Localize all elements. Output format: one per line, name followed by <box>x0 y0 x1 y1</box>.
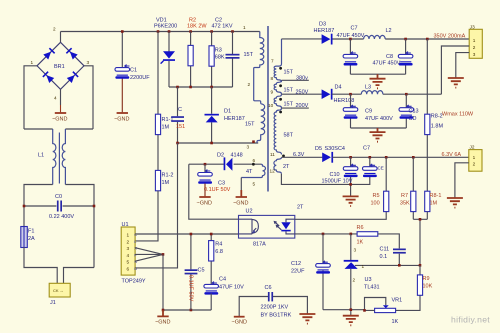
wire drain vertical to U1 pin D <box>135 143 177 268</box>
svg-text:R2: R2 <box>189 18 196 24</box>
wire bridge top to rail <box>60 32 62 43</box>
svg-text:TL431: TL431 <box>364 285 380 291</box>
winding sec B 15T <box>271 80 294 94</box>
IC U1 TOP249Y <box>121 222 146 285</box>
junction anode <box>350 308 353 311</box>
svg-text:250V: 250V <box>296 90 309 96</box>
diode D5 S30SC4 <box>315 146 345 163</box>
wire pin7 to D3 <box>282 38 322 40</box>
potentiometer VR1 1K <box>365 298 403 326</box>
svg-text:R1-1: R1-1 <box>162 117 174 123</box>
earth ground C10 <box>343 196 359 206</box>
svg-text:0.1UF 50V: 0.1UF 50V <box>204 187 231 193</box>
wire pin9 to D4 <box>282 93 322 95</box>
junction gnd rail C5 <box>190 309 193 312</box>
svg-text:BY BG1TRK: BY BG1TRK <box>261 313 292 319</box>
earth ground TL431 <box>343 316 359 326</box>
winding sec E 2T <box>270 155 291 174</box>
junction clamp snubber <box>176 86 179 89</box>
svg-text:2: 2 <box>248 82 251 87</box>
wire C1 stem <box>121 32 123 68</box>
svg-text:3: 3 <box>127 246 130 251</box>
svg-text:C1: C1 <box>130 68 137 74</box>
svg-text:1M: 1M <box>162 125 170 131</box>
svg-text:350V 200mA: 350V 200mA <box>434 34 466 40</box>
svg-text:D1: D1 <box>224 109 231 115</box>
svg-text:D5: D5 <box>315 146 322 152</box>
svg-text:C: C <box>134 232 137 237</box>
svg-text:68K: 68K <box>215 55 225 61</box>
svg-text:3: 3 <box>354 248 357 253</box>
capacitor C4 47UF 10V <box>204 277 244 311</box>
wire clamp node horizontal <box>169 86 233 88</box>
svg-text:R3: R3 <box>215 48 222 54</box>
junction C9 <box>349 93 352 96</box>
svg-text:HER187: HER187 <box>224 116 245 122</box>
wire AC right vertical from bridge pin3 down to L1 <box>84 66 93 129</box>
svg-text:HER108: HER108 <box>334 98 355 104</box>
wire main HV rail <box>61 31 260 33</box>
svg-text:200V: 200V <box>296 103 309 109</box>
svg-text:15T: 15T <box>244 52 254 58</box>
svg-text:CD: CD <box>409 116 417 122</box>
svg-text:Wmax 110W: Wmax 110W <box>442 112 474 118</box>
connector J3 <box>469 24 482 58</box>
svg-text:3: 3 <box>247 145 250 150</box>
svg-text:472 1KV: 472 1KV <box>212 24 233 30</box>
wire R7 R8-1 bottoms <box>413 219 427 265</box>
wire L1 right bottom down right column <box>65 185 94 268</box>
svg-text:1500UF 10V: 1500UF 10V <box>322 179 353 185</box>
svg-text:15T: 15T <box>284 102 294 108</box>
svg-text:1K: 1K <box>357 240 364 246</box>
junction ref C11 <box>398 264 401 267</box>
svg-text:J2: J2 <box>470 145 475 150</box>
resistor R5 100 <box>295 157 389 219</box>
junction R7R8 <box>419 218 422 221</box>
transformer T1 core <box>267 26 269 192</box>
svg-text:10: 10 <box>268 103 274 108</box>
svg-text:hifidiy.net: hifidiy.net <box>451 315 490 325</box>
svg-text:3: 3 <box>87 60 90 65</box>
svg-text:35K: 35K <box>400 201 410 207</box>
svg-text:C3: C3 <box>218 181 225 187</box>
svg-text:6.3V 6A: 6.3V 6A <box>442 152 462 158</box>
svg-text:58T: 58T <box>284 133 294 139</box>
fuse F1 <box>21 227 35 248</box>
svg-text:F1: F1 <box>28 229 34 235</box>
wire R1-2 to U1 pin L <box>135 191 158 241</box>
capacitor C6 Y-cap <box>239 285 307 319</box>
earth ground 350V filter <box>370 74 386 88</box>
junction R8-2 <box>426 38 429 41</box>
svg-text:C7: C7 <box>363 146 370 152</box>
svg-text:0.1UF 50V: 0.1UF 50V <box>188 275 194 302</box>
svg-text:R8-1: R8-1 <box>430 193 442 199</box>
svg-text:1M: 1M <box>162 180 170 186</box>
svg-text:47UF 10V: 47UF 10V <box>219 285 244 291</box>
svg-text:4148: 4148 <box>231 153 243 159</box>
inductor L2 <box>364 28 392 39</box>
junction rail R3 <box>210 30 213 33</box>
svg-text:U3: U3 <box>365 277 372 283</box>
winding primary lower 15T <box>245 104 265 143</box>
capacitor C12 22UF <box>291 234 330 310</box>
earth ground 250V filter <box>370 128 386 142</box>
svg-text:2: 2 <box>53 27 56 32</box>
junction C1 rail <box>121 30 124 33</box>
wire gnd rail U1 <box>163 309 211 311</box>
svg-text:1M: 1M <box>430 201 438 207</box>
wire source to gnd rail <box>162 254 164 310</box>
svg-text:P6KE200: P6KE200 <box>154 24 177 30</box>
svg-text:12: 12 <box>270 169 276 174</box>
junction rail VD1 <box>168 30 171 33</box>
junction fan <box>162 253 165 256</box>
wire right column to J1 <box>64 268 95 284</box>
wire 6.3V rail <box>332 156 469 158</box>
junction drain snubber <box>176 142 179 145</box>
svg-text:1: 1 <box>473 38 476 43</box>
svg-text:R5: R5 <box>373 193 380 199</box>
junction rail C2 <box>231 30 234 33</box>
capacitor C1 2200UF <box>115 65 150 81</box>
svg-text:2200P 1KV: 2200P 1KV <box>261 305 289 311</box>
earth ground J3 <box>448 78 464 88</box>
svg-text:C6: C6 <box>265 285 272 291</box>
svg-text:C9: C9 <box>365 109 372 115</box>
connector J1 <box>49 283 70 306</box>
svg-text:S: S <box>134 259 137 264</box>
junction ref R9 <box>419 264 422 267</box>
svg-text:R8-2: R8-2 <box>431 114 443 120</box>
diode D1 HER187 <box>205 87 245 143</box>
junction gnd rail <box>162 309 165 312</box>
svg-text:C4: C4 <box>219 277 226 283</box>
wire L1 left bottom to fuse column <box>24 185 53 227</box>
wire bias node <box>189 163 261 165</box>
svg-text:4T: 4T <box>246 169 253 175</box>
svg-text:1: 1 <box>127 233 130 238</box>
svg-text:~GND: ~GND <box>232 320 247 326</box>
junction C10 <box>349 156 352 159</box>
shunt regulator U3 TL431 <box>344 234 420 315</box>
svg-text:15T: 15T <box>245 122 255 128</box>
junction C0 right <box>93 205 96 208</box>
svg-text:0.22 400V: 0.22 400V <box>49 214 74 220</box>
svg-text:R6: R6 <box>357 225 364 231</box>
label 380v net <box>282 76 309 82</box>
wire pin5 to gnd <box>240 178 242 191</box>
svg-text:15T: 15T <box>284 70 294 76</box>
svg-text:L1: L1 <box>38 153 44 159</box>
diode D4 HER108 <box>322 85 355 105</box>
svg-text:2: 2 <box>127 239 130 244</box>
svg-text:~GND: ~GND <box>197 201 212 207</box>
capacitor C2 472 1KV <box>212 18 240 88</box>
svg-text:C11: C11 <box>380 247 390 253</box>
capacitor C11 0.1 <box>380 247 406 266</box>
svg-text:R9: R9 <box>423 276 430 282</box>
svg-text:L2: L2 <box>386 28 392 34</box>
resistor R1-1 1M <box>155 32 173 171</box>
junction C13 <box>405 93 408 96</box>
ground ~GND C1 <box>114 113 129 123</box>
svg-text:2T: 2T <box>283 164 290 170</box>
svg-text:2: 2 <box>473 45 476 50</box>
svg-text:10K: 10K <box>423 284 433 290</box>
wire 350V rail <box>333 38 470 40</box>
ground ~GND U1 <box>155 310 170 326</box>
svg-text:C8: C8 <box>386 54 393 60</box>
svg-text:VR1: VR1 <box>392 298 403 304</box>
svg-text:C12: C12 <box>291 261 301 267</box>
junction C3 <box>204 163 207 166</box>
capacitor C7 47UF 450V <box>337 26 365 75</box>
svg-text:1: 1 <box>31 60 34 65</box>
svg-text:2200UF: 2200UF <box>130 75 150 81</box>
inductor L3 <box>361 85 383 95</box>
svg-text:TOP249Y: TOP249Y <box>122 279 146 285</box>
resistor R9 10K <box>396 265 433 310</box>
wire bridge bottom to gnd <box>60 89 62 105</box>
svg-text:C2: C2 <box>215 18 222 24</box>
capacitor C8 47UF 450V <box>373 39 413 74</box>
svg-text:BR1: BR1 <box>54 64 65 70</box>
svg-text:1: 1 <box>243 25 246 30</box>
svg-text:CE: CE <box>378 166 384 171</box>
junction clamp R2 <box>189 86 192 89</box>
svg-text:6.8: 6.8 <box>215 249 223 255</box>
svg-text:6: 6 <box>127 266 130 271</box>
connector J2 <box>469 145 482 172</box>
svg-text:L3: L3 <box>365 85 371 91</box>
svg-text:C0: C0 <box>55 194 62 200</box>
svg-text:~GND: ~GND <box>155 320 170 326</box>
junction R5 <box>385 156 388 159</box>
label R8-2 <box>425 39 444 192</box>
svg-text:U2: U2 <box>246 209 253 215</box>
junction clamp R3 D1 <box>210 86 213 89</box>
resistor R2 18K 2W <box>187 18 207 88</box>
resistor R3 68K <box>209 32 225 88</box>
svg-text:S30SC4: S30SC4 <box>325 146 346 152</box>
svg-text:~GND: ~GND <box>233 201 248 207</box>
junction R7 <box>412 156 415 159</box>
resistor R8-1 1M <box>425 191 442 219</box>
svg-text:R7: R7 <box>401 193 408 199</box>
diode D3 HER187 <box>314 22 335 45</box>
svg-text:6.3V: 6.3V <box>293 152 305 158</box>
winding sec A 15T <box>271 39 294 82</box>
wire L1 right top <box>65 128 93 130</box>
wire U1 pins XFS fan <box>135 248 163 262</box>
svg-text:C: C <box>178 107 182 113</box>
earth ground C6 right <box>299 314 315 324</box>
winding 4T bias <box>241 164 265 177</box>
bridge rectifier BR1 <box>37 42 84 89</box>
resistor R1-2 1M <box>155 170 173 190</box>
ground ~GND pin5 <box>233 190 248 207</box>
svg-text:D2: D2 <box>217 153 224 159</box>
junction drain D1 <box>210 142 213 145</box>
svg-text:4: 4 <box>127 253 130 258</box>
junction VR1 left <box>363 309 366 312</box>
svg-text:3: 3 <box>473 52 476 57</box>
junction rail R1-1 <box>157 30 160 33</box>
junction C8 <box>404 38 407 41</box>
capacitor C3 <box>198 164 231 193</box>
svg-text:817A: 817A <box>253 242 266 248</box>
resistor R7 35K <box>400 157 416 219</box>
svg-text:22UF: 22UF <box>291 269 305 275</box>
polarity dot 4T <box>252 163 255 166</box>
optocoupler U2 817A <box>239 209 295 248</box>
svg-text:4: 4 <box>54 96 57 101</box>
svg-text:1: 1 <box>362 264 365 269</box>
svg-text:1K: 1K <box>392 319 399 325</box>
svg-text:1.8M: 1.8M <box>431 124 444 130</box>
svg-text:0.1: 0.1 <box>380 254 388 260</box>
resistor R6 1K <box>357 225 400 248</box>
capacitor C9 47UF 400V <box>343 94 393 128</box>
capacitor C0 <box>49 194 74 220</box>
junction C7 <box>349 38 352 41</box>
svg-text:VD1: VD1 <box>156 18 167 24</box>
wire U1 pin C to U2 <box>135 233 239 235</box>
wire C9 C13 bottoms <box>351 127 407 129</box>
wire J2 pin2 to gnd <box>455 163 469 198</box>
svg-text:D3: D3 <box>319 22 326 28</box>
junction R6 left TL431 <box>350 233 353 236</box>
svg-text:11: 11 <box>270 152 275 157</box>
svg-text:6: 6 <box>253 158 256 163</box>
winding sec D 58T <box>270 108 294 157</box>
resistor R4 6.8 <box>209 234 223 284</box>
wire J3 pin2 to 250V rail <box>441 46 469 94</box>
ground ~GND bridge <box>52 113 67 123</box>
wire pin12 return <box>281 174 369 185</box>
svg-text:380v: 380v <box>296 76 308 82</box>
wire fuse to J1 <box>24 247 57 283</box>
svg-text:2T: 2T <box>297 205 304 211</box>
svg-text:U1: U1 <box>122 222 129 228</box>
earth ground J2 <box>447 198 463 208</box>
wire drain node horizontal to xfmr pin3 <box>178 142 259 144</box>
svg-text:J1: J1 <box>50 300 56 306</box>
junction pin3 dot <box>252 140 255 143</box>
wire 250V rail <box>332 93 442 95</box>
svg-text:2A: 2A <box>28 236 35 242</box>
ground ~GND C6 left <box>232 317 247 326</box>
svg-text:8: 8 <box>271 76 274 81</box>
choke L1 <box>38 129 65 185</box>
svg-text:C13: C13 <box>409 109 419 115</box>
svg-text:47UF 450V: 47UF 450V <box>337 33 365 39</box>
capacitor C5 <box>185 234 205 310</box>
junction R4 top <box>210 233 213 236</box>
svg-text:2: 2 <box>353 278 356 283</box>
wire J3 pin3 to gnd <box>456 53 469 78</box>
junction C10 gnd line <box>349 183 352 186</box>
svg-text:100: 100 <box>371 201 380 207</box>
winding sec C 15T <box>268 94 294 108</box>
svg-text:C5: C5 <box>198 268 205 274</box>
svg-text:1: 1 <box>473 155 476 160</box>
svg-text:18K 2W: 18K 2W <box>187 24 207 30</box>
svg-text:7: 7 <box>271 59 274 64</box>
svg-text:C10: C10 <box>330 172 340 178</box>
svg-text:151: 151 <box>176 124 185 130</box>
svg-text:~GND: ~GND <box>52 117 67 123</box>
ground ~GND C3 <box>197 184 212 207</box>
wire L1 left top <box>24 128 53 130</box>
svg-text:47UF 400V: 47UF 400V <box>365 116 393 122</box>
svg-text:R4: R4 <box>215 242 222 248</box>
svg-text:5: 5 <box>253 182 256 187</box>
wire AC left vertical from bridge pin1 down to L1 <box>24 66 37 129</box>
junction C0 left <box>23 205 26 208</box>
winding primary upper 15T <box>243 25 264 104</box>
wire C7 C8 bottoms <box>350 73 405 75</box>
wire bias to U2 collector <box>189 164 239 219</box>
svg-text:~GND: ~GND <box>114 117 129 123</box>
capacitor C snubber 151 <box>171 87 185 143</box>
wire C0 row <box>24 205 94 207</box>
svg-text:2: 2 <box>473 162 476 167</box>
svg-text:D: D <box>134 266 137 271</box>
svg-text:CK ↔: CK ↔ <box>53 288 64 293</box>
svg-text:D4: D4 <box>335 85 342 91</box>
capacitor CE <box>363 157 384 177</box>
svg-text:J3: J3 <box>470 24 475 29</box>
capacitor C10 1500UF 10V <box>322 157 358 196</box>
junction C5 top <box>190 233 193 236</box>
svg-text:C7: C7 <box>351 26 358 32</box>
svg-text:47UF 450V: 47UF 450V <box>373 61 401 67</box>
svg-text:5: 5 <box>127 260 130 265</box>
diode D2 4148 <box>217 153 243 171</box>
wire C12 bottom to TL431 anode <box>323 309 365 311</box>
svg-text:9: 9 <box>271 90 274 95</box>
junction C12 top <box>322 233 325 236</box>
TVS diode VD1 P6KE200 <box>154 18 177 88</box>
junction CE <box>369 156 372 159</box>
svg-text:R1-2: R1-2 <box>162 173 174 179</box>
wire pin11 to D5 <box>282 156 323 158</box>
label 200V net <box>282 103 309 109</box>
svg-text:HER187: HER187 <box>314 28 335 34</box>
capacitor C13 CD <box>399 94 419 128</box>
wire U2 cathode to R6 <box>295 233 357 235</box>
svg-text:15T: 15T <box>284 88 294 94</box>
junction rail R2 <box>189 30 192 33</box>
